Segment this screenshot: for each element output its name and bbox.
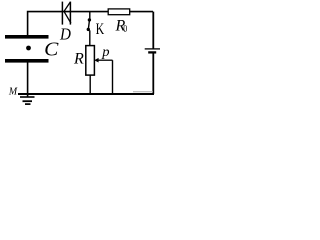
svg-text:M: M bbox=[8, 86, 18, 98]
svg-text:D: D bbox=[59, 25, 71, 44]
svg-text:p: p bbox=[101, 45, 109, 60]
svg-text:0: 0 bbox=[123, 24, 127, 35]
svg-text:R: R bbox=[73, 51, 84, 68]
svg-text:C: C bbox=[44, 39, 59, 61]
svg-text:K: K bbox=[96, 21, 105, 38]
